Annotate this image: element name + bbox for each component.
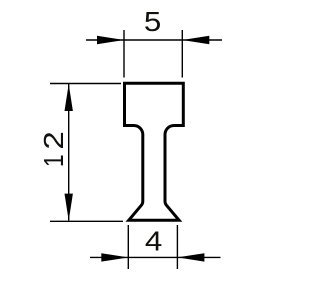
- dim 5: dimension line: [86, 39, 222, 41]
- dim 5: right arrow: [182, 36, 209, 44]
- dim 5: left arrow: [97, 36, 124, 44]
- dim 4: left arrow: [101, 253, 128, 261]
- svg-text:5: 5: [144, 7, 161, 38]
- svg-text:1: 1: [39, 154, 70, 167]
- svg-text:2: 2: [38, 131, 69, 149]
- dim 4: right arrow: [177, 253, 204, 261]
- rail profile outline: [125, 83, 184, 220]
- dim 12: up arrow: [65, 84, 73, 111]
- dim 5: left extension line: [123, 30, 125, 78]
- dim 4: right extension line: [176, 225, 178, 269]
- dim 4: dimension line: [90, 256, 221, 258]
- dim 5: right extension line: [181, 30, 183, 78]
- svg-text:4: 4: [145, 226, 162, 257]
- dim 12: top extension line: [50, 83, 121, 85]
- dim 12: bottom extension line: [50, 220, 123, 222]
- dim 4: left extension line: [127, 225, 129, 269]
- dim 12: dimension line: [68, 84, 70, 221]
- dim 12: down arrow: [65, 194, 73, 221]
